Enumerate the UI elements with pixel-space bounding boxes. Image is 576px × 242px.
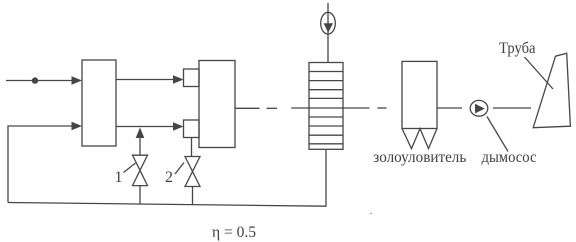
svg-text:1: 1 [115, 169, 123, 186]
stray dot [370, 213, 372, 215]
exhauster label leader line [487, 117, 508, 152]
wire: boiler to superheater upper [116, 79, 175, 81]
wire: dash segment [267, 107, 278, 109]
port: lower inlet box of second unit [184, 120, 200, 138]
wire: valve 1 riser with up arrow [139, 136, 141, 155]
port: upper inlet box of second unit [184, 69, 200, 87]
chimney (Труба) trapezoid [533, 53, 570, 128]
wire: flue line through air heater [291, 107, 369, 109]
arrowhead into upper port [173, 75, 184, 84]
wire: feed line into boiler (upper input) [6, 80, 73, 82]
wire: flue gas line segment from second unit [235, 107, 260, 109]
ash collector hopper triangles [402, 129, 437, 149]
arrowhead up from valve 1 [136, 128, 145, 139]
wire: valve 1 to bottom pipe [139, 186, 141, 205]
block: ash collector (золоуловитель) [402, 61, 437, 128]
fan symbol: circle with down arrow on top line [321, 12, 336, 34]
svg-text:Труба: Труба [499, 40, 536, 57]
chimney label leader line [525, 57, 554, 89]
wire: valve 2 to bottom pipe [192, 187, 194, 205]
wire: exhauster to chimney [493, 107, 531, 109]
wire: vertical line above air heater [327, 3, 329, 63]
block: boiler (left rectangle) [82, 60, 116, 146]
svg-text:η = 0.5: η = 0.5 [212, 224, 256, 241]
svg-text:дымосос: дымосос [482, 149, 537, 166]
wire: ash collector to exhauster [437, 107, 462, 109]
block: air heater (ribbed rectangle) [309, 63, 343, 150]
svg-text:золоуловитель: золоуловитель [373, 149, 466, 166]
block: second unit main rectangle [199, 61, 235, 148]
wire: recirculation return line (lower input) [8, 126, 73, 203]
valve 1 (bowtie symbol) [133, 155, 148, 185]
wire: boiler to superheater lower [116, 126, 175, 128]
valve 2 (bowtie symbol) [185, 157, 200, 187]
wire: bottom return pipe [8, 150, 326, 207]
svg-text:2: 2 [165, 169, 173, 186]
label 1 leader line [124, 163, 136, 173]
wire: dash segment [377, 107, 386, 109]
arrowhead into boiler lower inlet [72, 122, 83, 131]
arrowhead into boiler upper inlet [72, 76, 83, 85]
arrowhead into lower port [173, 122, 184, 131]
wire: lower port down to valve 2 [191, 138, 193, 157]
exhauster symbol (дымосос): circle with right arrow [470, 100, 488, 116]
air heater ribs [309, 72, 343, 144]
label 2 leader line [175, 163, 184, 175]
node: small circle on feed line [32, 78, 37, 83]
